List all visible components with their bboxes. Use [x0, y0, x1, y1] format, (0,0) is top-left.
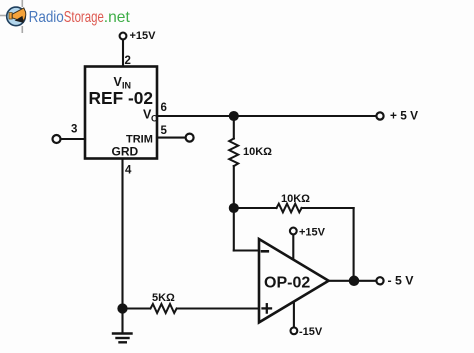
IC REF-02 box: [85, 67, 157, 159]
node junction pin6/R1: [230, 112, 238, 120]
terminal trim: [186, 134, 194, 142]
logo emitter arrow: [15, 16, 24, 23]
svg-text:REF -02: REF -02: [89, 88, 154, 108]
wire inverting branch down: [233, 208, 235, 251]
terminal +5V: [376, 112, 383, 119]
opamp minus sign: [262, 250, 268, 253]
wire pin2: [122, 40, 124, 66]
svg-text:10KΩ: 10KΩ: [281, 193, 310, 205]
wire pin3: [61, 138, 85, 140]
ground: [113, 334, 132, 343]
wire opamp output: [329, 280, 377, 282]
wire R1 bottom: [233, 166, 235, 208]
svg-text:2: 2: [125, 55, 131, 67]
terminal -5V: [376, 277, 383, 284]
svg-text:- 5 V: - 5 V: [388, 274, 414, 288]
svg-text:GRD: GRD: [112, 145, 139, 159]
svg-text:5: 5: [161, 125, 168, 137]
wire R1 top: [233, 116, 235, 139]
svg-text:-15V: -15V: [299, 326, 323, 338]
wire R3 to opamp plus: [177, 307, 259, 309]
terminal pin3: [53, 135, 61, 143]
resistor R1 10K zigzag vertical: [229, 139, 238, 167]
logo transistor circle: [7, 7, 26, 26]
resistor R3 5K zigzag: [151, 304, 177, 313]
opamp plus sign: [263, 307, 272, 309]
svg-text:10KΩ: 10KΩ: [243, 146, 272, 158]
wire opamp +15V: [292, 235, 294, 259]
node junction R1/R2: [230, 204, 238, 212]
wire to opamp minus: [234, 249, 259, 251]
svg-text:+15V: +15V: [299, 226, 326, 238]
wire pin6 output: [157, 115, 376, 117]
wire opamp -15V: [293, 302, 295, 327]
node junction gnd/R3: [118, 304, 126, 312]
svg-text:5KΩ: 5KΩ: [152, 292, 175, 304]
wire feedback down: [353, 208, 355, 281]
svg-text:6: 6: [161, 102, 167, 114]
op-amp U2 triangle: [259, 239, 329, 322]
resistor R2 10K zigzag feedback: [277, 204, 302, 213]
svg-text:O: O: [151, 114, 158, 124]
wire R2 to right: [302, 207, 354, 209]
wire to R3: [123, 307, 150, 309]
terminal opamp +15V: [290, 228, 297, 235]
wire to R2: [234, 207, 277, 209]
wire pin4 ground: [121, 159, 123, 333]
svg-text:RadioStorage.net: RadioStorage.net: [29, 9, 131, 26]
node junction output: [350, 277, 358, 285]
logo crosshair lines: [0, 0, 22, 33]
wire pin5 trim: [157, 137, 185, 139]
terminal opamp -15V: [291, 327, 298, 334]
svg-text:+15V: +15V: [130, 30, 157, 42]
svg-text:OP-02: OP-02: [264, 275, 310, 292]
svg-text:4: 4: [125, 165, 132, 177]
terminal +15V top: [120, 33, 127, 40]
logo orange horn: [9, 8, 26, 22]
svg-text:3: 3: [71, 124, 77, 136]
svg-text:+ 5 V: + 5 V: [390, 109, 418, 123]
